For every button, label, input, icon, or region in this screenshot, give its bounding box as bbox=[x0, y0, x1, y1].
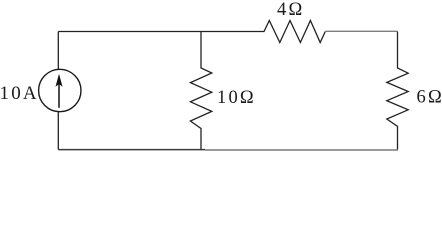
svg-text:6Ω: 6Ω bbox=[417, 87, 442, 107]
svg-text:10Ω: 10Ω bbox=[217, 88, 256, 108]
svg-text:4Ω: 4Ω bbox=[277, 0, 304, 20]
svg-text:10A: 10A bbox=[0, 83, 39, 104]
